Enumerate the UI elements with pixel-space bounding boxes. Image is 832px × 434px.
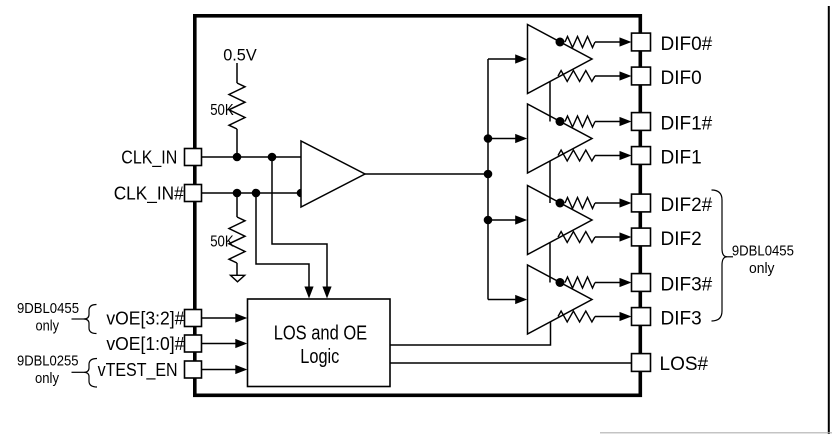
pin DIF3 [632,308,651,326]
chip outline box [195,16,641,396]
svg-text:9DBL0255: 9DBL0255 [17,353,79,370]
op-amp output buffer U4 (DIF2) [528,186,593,255]
pin DIF1 [632,147,651,165]
node junction dot CLK_IN branch to LOS [268,153,277,162]
LOS and OE Logic block [248,299,391,387]
svg-text:DIF2: DIF2 [661,229,702,250]
svg-text:50K: 50K [210,233,234,250]
label 9DBL0255 only (left) [17,353,79,388]
node fanout junction (buffer 2) [484,134,493,143]
svg-text:9DBL0455: 9DBL0455 [732,243,794,260]
pin DIF3# [632,274,651,292]
pin CLK_IN [185,149,202,166]
node fanout junction (buffer 3) [484,216,493,225]
wire LOS# output [390,362,632,364]
node junction dot CLK_IN# / R2 [233,189,242,198]
brace for 9DBL0455 (right, DIF2..DIF3) [712,190,734,321]
wire complement tie from U2 to U3 [549,82,551,122]
resistor series DIF3 [558,311,595,322]
pin DIF0 [632,67,651,85]
svg-text:DIF3#: DIF3# [661,274,713,295]
wire LOS enable to buffer U5 [390,322,551,345]
node fanout junction (main) [484,170,493,179]
pin LOS# [632,354,651,372]
svg-text:vOE[1:0]#: vOE[1:0]# [106,334,184,354]
resistor series DIF0# [565,37,595,48]
node junction dot DIF2# tap [556,199,565,208]
svg-text:9DBL0455: 9DBL0455 [17,300,79,317]
pin DIF0# [632,33,651,51]
wire DIF1 to pin [595,151,632,160]
svg-text:DIF1#: DIF1# [661,113,713,134]
wire DIF3# to pin [595,278,632,287]
wire vOE[1:0]# to LOS logic [202,339,248,348]
wire CLK_IN# sense to LOS logic [256,193,314,299]
brace for 9DBL0455 (left) [72,305,97,334]
wire CLK_IN to input buffer [202,156,302,158]
node junction dot CLK_IN# at buffer input [297,189,306,198]
node junction dot DIF0# tap [556,38,565,47]
label 9DBL0455 only (right) [732,243,794,277]
brace for 9DBL0255 (left) [72,359,98,388]
wire DIF2# to pin [595,198,632,207]
wire vOE[3:2]# to LOS logic [202,313,248,322]
svg-text:DIF1: DIF1 [661,147,702,168]
svg-text:DIF0#: DIF0# [661,34,713,55]
svg-text:LOS#: LOS# [660,354,709,375]
wire fanout bus vertical [487,59,489,300]
wire fanout stub to buffer U5 [488,295,527,304]
node junction dot CLK_IN / R1 [233,153,242,162]
op-amp input buffer U1 [301,141,365,207]
wire U1 output to fanout bus [365,173,488,175]
node junction dot DIF1# tap [556,117,565,126]
wire complement tie from U4 to U5 [549,243,551,283]
pin DIF2# [632,194,651,212]
svg-text:DIF3: DIF3 [661,308,702,329]
node junction dot CLK_IN# branch to LOS [252,189,261,198]
svg-text:only: only [36,318,60,335]
resistor series DIF3# [565,277,595,288]
pin vTEST_EN [185,361,202,378]
svg-text:DIF2#: DIF2# [661,195,713,216]
pin vOE[3:2]# [185,310,202,327]
resistor R2 50K pull-down [229,193,245,275]
wire DIF2 to pin [595,232,632,241]
wire DIF0# to pin [595,37,632,46]
svg-text:CLK_IN: CLK_IN [121,147,177,169]
wire DIF1# to pin [595,117,632,126]
pin CLK_IN# [185,185,202,202]
svg-text:0.5V: 0.5V [223,46,257,64]
resistor series DIF2 [558,232,595,243]
wire CLK_IN sense to LOS logic [272,157,332,299]
svg-text:only: only [35,370,59,387]
pin DIF1# [632,113,651,131]
resistor series DIF1 [558,150,595,161]
node junction dot DIF3# tap [556,278,565,287]
resistor series DIF0 [558,71,595,82]
op-amp output buffer U2 (DIF0) [528,25,593,94]
wire vTEST_EN to LOS logic [202,365,248,374]
wire fanout stub to buffer U4 [488,215,527,224]
wire fanout stub to buffer U3 [488,134,527,143]
svg-text:50K: 50K [210,102,234,119]
wire DIF0 to pin [595,71,632,80]
svg-text:vOE[3:2]#: vOE[3:2]# [106,308,184,328]
svg-text:DIF0: DIF0 [661,68,702,89]
svg-text:Logic: Logic [300,346,339,368]
wire CLK_IN# to input buffer [202,192,302,194]
resistor series DIF2# [565,198,595,209]
wire complement tie from U3 to U4 [549,161,551,203]
label 9DBL0455 only (left) [17,300,79,335]
wire DIF3 to pin [595,312,632,321]
wire fanout stub to buffer U2 [488,54,527,63]
op-amp output buffer U5 (DIF3) [528,265,593,334]
resistor R1 50K pull-up [229,63,245,157]
ground symbol [231,275,245,282]
svg-text:vTEST_EN: vTEST_EN [98,360,178,381]
svg-text:LOS and OE: LOS and OE [274,323,368,345]
op-amp output buffer U3 (DIF1) [528,104,593,173]
svg-text:only: only [749,260,775,277]
svg-text:CLK_IN#: CLK_IN# [114,182,185,204]
resistor series DIF1# [565,116,595,127]
pin vOE[1:0]# [185,335,202,352]
pin DIF2 [632,228,651,246]
